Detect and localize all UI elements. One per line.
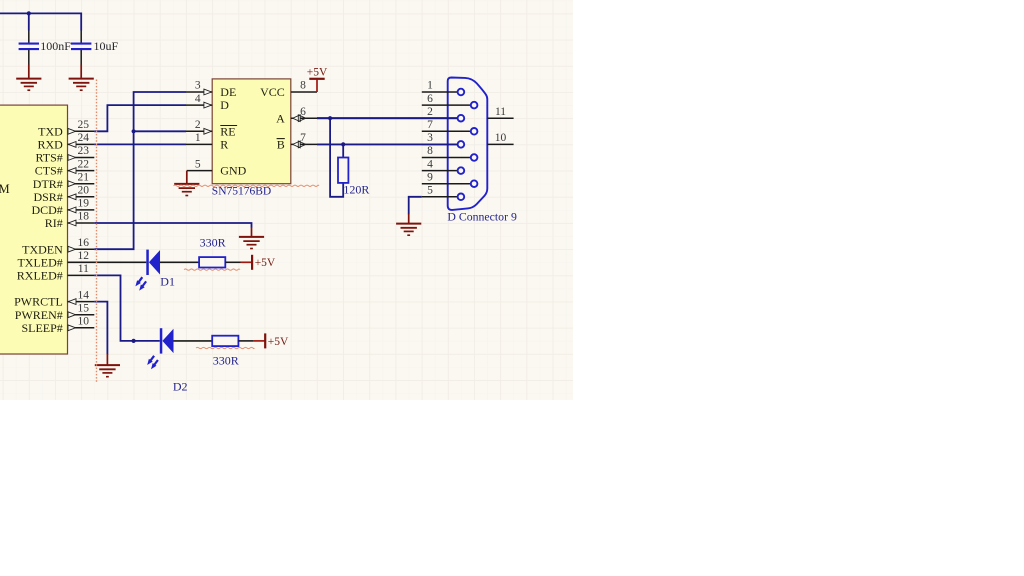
svg-text:RTS#: RTS# xyxy=(36,151,63,165)
svg-text:4: 4 xyxy=(195,93,201,105)
pin 1 R of U2 xyxy=(186,143,212,145)
stem PWRCTL ground xyxy=(106,354,108,365)
junction TXDEN/RE xyxy=(132,129,136,133)
svg-text:SN75176BD: SN75176BD xyxy=(212,185,271,197)
svg-text:100nF: 100nF xyxy=(40,39,71,53)
pin 4 of J1 xyxy=(422,170,458,172)
svg-text:TXLED#: TXLED# xyxy=(17,255,62,269)
pin 25 TXD of U1 xyxy=(68,130,95,132)
stem RI# ground xyxy=(251,227,253,236)
svg-text:2: 2 xyxy=(427,106,433,118)
svg-text:10uF: 10uF xyxy=(94,39,119,53)
svg-text:4: 4 xyxy=(427,158,433,170)
resistor R2 330R xyxy=(212,336,238,346)
svg-text:20: 20 xyxy=(78,185,90,197)
wire overlay A into pin2 xyxy=(317,117,458,119)
svg-text:15: 15 xyxy=(78,302,90,314)
svg-text:RXD: RXD xyxy=(37,138,63,152)
wire RI# to ground xyxy=(94,223,251,228)
wire B to DB9 pin3 xyxy=(317,143,458,145)
svg-text:22: 22 xyxy=(78,158,90,170)
svg-text:6: 6 xyxy=(427,93,433,105)
ground for C1 xyxy=(16,79,41,91)
ground at RI# xyxy=(239,237,264,249)
pin 24 RXD of U1 xyxy=(68,143,95,145)
svg-text:2: 2 xyxy=(195,119,201,131)
svg-text:120R: 120R xyxy=(343,183,369,197)
svg-text:14: 14 xyxy=(78,289,90,301)
svg-text:R: R xyxy=(220,138,228,152)
svg-text:8: 8 xyxy=(427,145,433,157)
svg-text:PWRCTL: PWRCTL xyxy=(14,295,63,309)
svg-text:CTS#: CTS# xyxy=(35,164,63,178)
svg-text:3: 3 xyxy=(427,132,433,144)
pin 2 RE of U2 xyxy=(186,130,212,132)
svg-text:23: 23 xyxy=(78,145,90,157)
svg-text:10: 10 xyxy=(78,316,90,328)
svg-text:+5V: +5V xyxy=(268,336,289,348)
svg-text:330R: 330R xyxy=(200,236,226,250)
error squiggle under U2 xyxy=(174,185,320,186)
svg-text:18: 18 xyxy=(78,211,90,223)
pin 20 DSR# of U1 xyxy=(68,196,95,198)
pin 7 B of U2 xyxy=(291,143,317,145)
svg-text:D2: D2 xyxy=(173,379,188,393)
junction top rail / C1 xyxy=(27,11,31,15)
svg-text:12: 12 xyxy=(78,250,90,262)
stem DB9 ground xyxy=(408,214,410,223)
pin 21 DTR# of U1 xyxy=(68,183,95,185)
power +5V at D2 xyxy=(264,333,266,348)
pin 3 of J1 xyxy=(422,143,458,145)
junction on D2 wire xyxy=(132,339,136,343)
pin 6 A of U2 xyxy=(291,117,317,119)
svg-text:RE: RE xyxy=(220,124,235,138)
svg-text:3: 3 xyxy=(195,80,201,92)
error squiggle vertical xyxy=(96,80,98,383)
pin 22 CTS# of U1 xyxy=(68,170,95,172)
pin 1 of J1 xyxy=(422,91,458,93)
svg-text:DSR#: DSR# xyxy=(33,190,62,204)
pin 19 DCD# of U1 xyxy=(68,209,95,211)
ground for C2 xyxy=(69,79,94,91)
svg-text:A: A xyxy=(276,111,285,125)
svg-text:RI#: RI# xyxy=(45,216,63,230)
svg-text:D1: D1 xyxy=(160,275,175,289)
wire R1 to +5V xyxy=(225,261,240,263)
svg-text:19: 19 xyxy=(78,198,90,210)
error squiggle under R2 xyxy=(196,347,254,348)
svg-text:11: 11 xyxy=(495,106,506,118)
ground at PWRCTL xyxy=(95,365,120,377)
pin 14 PWRCTL of U1 xyxy=(68,301,95,303)
power +5V at VCC xyxy=(316,80,318,92)
wire B to R3 top xyxy=(342,144,344,157)
wire A to R3 bottom xyxy=(330,118,343,197)
svg-text:7: 7 xyxy=(300,132,306,144)
wire branch to RE xyxy=(134,130,186,132)
LED D2 xyxy=(160,328,163,353)
svg-text:B: B xyxy=(277,138,285,152)
light arrows D2 xyxy=(147,359,153,365)
svg-text:8: 8 xyxy=(300,80,306,92)
capacitor C1 100nF xyxy=(28,13,30,30)
svg-text:VCC: VCC xyxy=(260,85,285,99)
pin 8 of J1 xyxy=(422,157,471,159)
svg-text:TXD: TXD xyxy=(38,124,63,138)
svg-text:+5V: +5V xyxy=(307,66,328,78)
svg-text:24: 24 xyxy=(78,132,90,144)
svg-text:5: 5 xyxy=(195,158,201,170)
svg-text:GND: GND xyxy=(220,164,246,178)
pin 12 TXLED# of U1 xyxy=(68,261,95,263)
svg-text:+5V: +5V xyxy=(255,257,276,269)
wire A to DB9 pin2 xyxy=(317,117,458,119)
svg-text:SLEEP#: SLEEP# xyxy=(21,321,62,335)
svg-text:11: 11 xyxy=(78,263,89,275)
wire PWRCTL to ground xyxy=(94,302,107,355)
svg-text:1: 1 xyxy=(427,80,433,92)
wire R2 to +5V xyxy=(238,340,253,342)
svg-text:9: 9 xyxy=(427,171,433,183)
wire TXDEN to DE xyxy=(94,92,186,249)
wire top power rail xyxy=(0,13,81,30)
wire RXLED# to D2 xyxy=(94,275,160,341)
ground at DB9 pin5 xyxy=(396,224,421,236)
wire DB9 pin5 to ground xyxy=(409,197,422,214)
svg-text:D: D xyxy=(220,98,229,112)
svg-text:10: 10 xyxy=(495,132,507,144)
wire overlay B into pin3 xyxy=(317,143,458,145)
pin 18 RI# of U1 xyxy=(68,222,95,224)
svg-text:RXLED#: RXLED# xyxy=(17,269,63,283)
svg-text:6: 6 xyxy=(300,106,306,118)
svg-text:PWREN#: PWREN# xyxy=(15,308,63,322)
IC U2 SN75176BD body xyxy=(212,79,291,184)
svg-text:D Connector 9: D Connector 9 xyxy=(447,210,517,224)
svg-text:16: 16 xyxy=(78,237,90,249)
pin 5 GND of U2 xyxy=(187,170,212,172)
pin 15 PWREN# of U1 xyxy=(68,314,95,316)
pin 8 VCC of U2 xyxy=(291,91,317,93)
light arrows D1 xyxy=(135,280,141,286)
svg-text:1: 1 xyxy=(195,132,201,144)
pin 7 of J1 xyxy=(422,130,471,132)
wire D1 to R1 xyxy=(160,261,199,263)
resistor R3 120R xyxy=(338,158,348,183)
svg-text:330R: 330R xyxy=(213,354,239,368)
pin 4 D of U2 xyxy=(186,104,212,106)
junction A xyxy=(328,116,332,120)
pin 9 of J1 xyxy=(422,183,471,185)
pin 23 RTS# of U1 xyxy=(68,157,95,159)
error squiggle under R1 xyxy=(184,269,240,270)
IC U1 body (left chip, cut off) xyxy=(0,105,68,354)
junction B xyxy=(341,142,345,146)
connector J1 outline xyxy=(448,78,488,210)
resistor R1 330R xyxy=(199,257,225,267)
ground at U2 GND xyxy=(174,184,199,196)
pin 16 TXDEN of U1 xyxy=(68,248,95,250)
pin 11 of J1 xyxy=(487,117,513,119)
pin 10 of J1 xyxy=(487,143,513,145)
pin 5 of J1 xyxy=(422,196,458,198)
svg-text:25: 25 xyxy=(78,119,90,131)
power +5V at D1 xyxy=(251,255,253,270)
wire TXD to D xyxy=(94,105,186,131)
svg-text:21: 21 xyxy=(78,171,90,183)
pin 6 of J1 xyxy=(422,104,471,106)
svg-text:TXDEN: TXDEN xyxy=(22,242,63,256)
wire D2 to R2 xyxy=(174,340,213,342)
svg-text:DTR#: DTR# xyxy=(33,177,63,191)
LED D1 xyxy=(146,250,149,275)
pin 11 RXLED# of U1 xyxy=(68,274,95,276)
wire RXD to R xyxy=(94,143,186,145)
capacitor C2 10uF xyxy=(80,31,82,43)
pin 2 of J1 xyxy=(422,117,458,119)
pin 3 DE of U2 xyxy=(186,91,212,93)
svg-text:7: 7 xyxy=(427,119,433,131)
svg-text:DCD#: DCD# xyxy=(31,203,62,217)
pin 10 SLEEP# of U1 xyxy=(68,327,95,329)
svg-text:5: 5 xyxy=(427,185,433,197)
wire TXLED# to D1 xyxy=(68,261,147,263)
svg-text:M: M xyxy=(0,182,10,196)
svg-text:DE: DE xyxy=(220,85,236,99)
